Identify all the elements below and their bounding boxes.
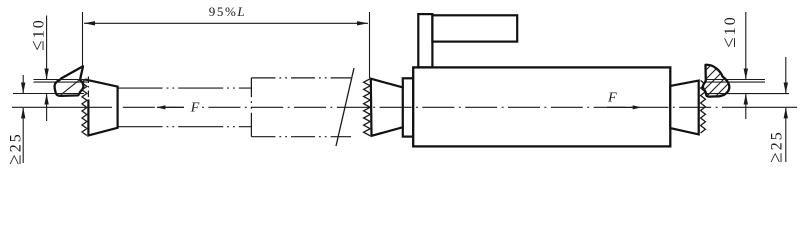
svg-text:≤10: ≤10 (719, 15, 740, 47)
svg-text:95%L: 95%L (209, 4, 246, 19)
svg-text:≥25: ≥25 (766, 130, 787, 162)
svg-text:≥25: ≥25 (5, 132, 26, 164)
svg-text:F: F (607, 91, 617, 106)
svg-text:≤10: ≤10 (28, 18, 49, 50)
svg-text:F: F (190, 100, 200, 115)
